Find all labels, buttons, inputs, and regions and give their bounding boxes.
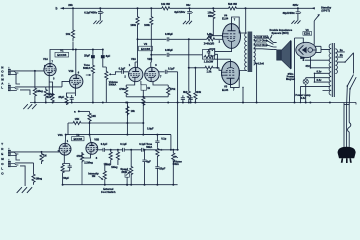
transformer T2 core bbox=[332, 43, 334, 97]
tube V5 EL84 (flipped) bbox=[222, 61, 240, 84]
resistor divider A bbox=[187, 88, 190, 103]
svg-text:ECC83: ECC83 bbox=[57, 53, 66, 57]
pot Tone 500kA bbox=[92, 58, 94, 60]
svg-text:8k2: 8k2 bbox=[183, 90, 188, 94]
wire J4 wiring bbox=[15, 163, 33, 186]
phase shift network wire bbox=[98, 149, 179, 151]
jack J2 normal input bbox=[8, 85, 11, 91]
pot Volume 50kA bbox=[172, 149, 174, 151]
svg-text:50µF: 50µF bbox=[63, 176, 69, 180]
svg-text:20k: 20k bbox=[68, 3, 73, 7]
capacitor bus bypass B bbox=[190, 95, 192, 102]
svg-text:1.2kΩW: 1.2kΩW bbox=[204, 60, 214, 64]
resistor grid stopper V4 bbox=[206, 38, 215, 41]
svg-text:25µF: 25µF bbox=[58, 95, 64, 99]
wire tone corner bbox=[170, 135, 172, 150]
junction bbox=[150, 54, 152, 56]
wire V4 plate to OT bbox=[232, 17, 247, 33]
svg-text:3.9µF: 3.9µF bbox=[147, 127, 154, 131]
junction bbox=[99, 7, 101, 9]
resistor 1k common bias box bbox=[140, 81, 142, 85]
wire V5 cathode top bbox=[230, 59, 232, 61]
resistor 470k V2A cathode leg bbox=[126, 82, 135, 85]
svg-text:1.3 Ohm: 1.3 Ohm bbox=[257, 39, 268, 43]
wire secondary taps to speaker bbox=[254, 37, 268, 63]
svg-text:V1B: V1B bbox=[69, 69, 74, 73]
resistor 10k tremolo supply bbox=[88, 111, 91, 123]
svg-text:8µF: 8µF bbox=[106, 54, 111, 58]
jack J3 tremolo input bbox=[8, 150, 11, 156]
junction set preamp bbox=[34, 102, 36, 104]
wire switch to cord bbox=[344, 104, 350, 106]
wire V1B plate bbox=[75, 50, 77, 75]
svg-text:500kA: 500kA bbox=[109, 83, 117, 87]
capacitor coupling to V2A grid bbox=[122, 70, 124, 74]
junction trem bus bbox=[104, 184, 106, 186]
wire tremolo lower rail bbox=[66, 134, 171, 136]
wire V3A cathode RC bbox=[63, 155, 70, 164]
junction bbox=[245, 7, 247, 9]
svg-text:V2B: V2B bbox=[147, 57, 152, 61]
svg-text:L: L bbox=[1, 86, 3, 90]
resistor 1k 5W (screen stopper V4) bbox=[212, 8, 215, 21]
wire ground bus tremolo bbox=[63, 184, 178, 186]
svg-text:47k: 47k bbox=[76, 154, 81, 158]
svg-text:250k: 250k bbox=[121, 170, 127, 174]
fuse link diagonal bbox=[345, 53, 354, 62]
svg-text:1M: 1M bbox=[92, 174, 96, 178]
capacitor 25uF below tone bbox=[156, 158, 158, 167]
svg-text:100k: 100k bbox=[130, 23, 136, 27]
wire V3B plate riser bbox=[90, 123, 92, 143]
wire mains cord bbox=[344, 103, 347, 148]
foot switch connector box bbox=[125, 171, 129, 177]
svg-text:32µF/450v: 32µF/450v bbox=[283, 11, 296, 15]
label taps bbox=[257, 35, 268, 38]
capacitor 0.05uF upper coupling bbox=[167, 37, 169, 41]
svg-text:325v: 325v bbox=[293, 3, 299, 7]
resistor 1Meg grid J1 bbox=[34, 71, 36, 86]
transformer T1 secondary bbox=[254, 36, 256, 65]
svg-text:Spacers (BF5): Spacers (BF5) bbox=[272, 31, 289, 35]
svg-text:0.05µF: 0.05µF bbox=[165, 48, 173, 52]
ground at bus left bbox=[23, 104, 36, 109]
svg-text:Σ=8kΩ/B: Σ=8kΩ/B bbox=[204, 41, 215, 45]
svg-text:L: L bbox=[1, 167, 3, 171]
wire supply spur bbox=[73, 49, 103, 51]
wire V1B cathode caps bbox=[67, 88, 76, 96]
svg-text:EL84: EL84 bbox=[222, 88, 229, 92]
capacitor 25uF decoupling bbox=[92, 49, 94, 51]
resistor on riser bbox=[126, 105, 129, 116]
wire phase divider right bbox=[194, 68, 196, 88]
capacitor PS2 bbox=[123, 148, 125, 152]
resistor 1Meg grid J2 bbox=[45, 87, 47, 88]
svg-text:470k: 470k bbox=[119, 87, 125, 91]
svg-text:470k: 470k bbox=[170, 87, 176, 91]
wire V6 top-left pin to HT cap bbox=[295, 38, 304, 103]
capacitor 32uF/450v reservoir bbox=[297, 8, 299, 11]
resistor 100k V2A plate load bbox=[136, 8, 139, 33]
transformer T1 core bbox=[248, 32, 253, 73]
wire J1 to V1A grid bbox=[11, 71, 44, 84]
junction bbox=[188, 67, 190, 69]
capacitor PS1 bbox=[103, 148, 105, 152]
svg-text:6.3v: 6.3v bbox=[317, 69, 323, 73]
wire secondary return to bus bbox=[256, 63, 258, 103]
capacitor 8uF/150v bbox=[189, 8, 191, 11]
junction bbox=[137, 38, 139, 40]
svg-text:0.96 Ohm: 0.96 Ohm bbox=[257, 35, 269, 39]
resistor 470k V2B cathode leg bbox=[153, 82, 168, 85]
svg-text:1M: 1M bbox=[43, 153, 47, 157]
wire B+ rail bbox=[61, 7, 315, 9]
svg-text:25µF: 25µF bbox=[84, 54, 90, 58]
svg-text:10k 3W: 10k 3W bbox=[161, 2, 170, 6]
resistor 100k V2B plate load bbox=[150, 8, 153, 33]
svg-text:0.1µF: 0.1µF bbox=[101, 142, 108, 146]
junction bbox=[34, 70, 36, 72]
junction bbox=[188, 38, 190, 40]
svg-text:2b: 2b bbox=[340, 53, 343, 57]
svg-text:3.2 Ohm: 3.2 Ohm bbox=[257, 43, 268, 47]
wire V5 down to bus bbox=[242, 87, 244, 102]
resistor divider B bbox=[194, 88, 197, 103]
svg-text:1.5k: 1.5k bbox=[207, 70, 213, 74]
wire V6 bottom pins bbox=[303, 57, 310, 68]
svg-text:T: T bbox=[1, 142, 3, 146]
ground bbox=[93, 21, 102, 24]
cathode bias box V4/V5 bbox=[210, 48, 215, 55]
junction mains bbox=[309, 102, 311, 104]
svg-text:350: 350 bbox=[300, 56, 305, 60]
svg-text:V3: V3 bbox=[76, 133, 80, 137]
capacitor 25uF V1B cathode bbox=[65, 96, 68, 105]
svg-text:10K: 10K bbox=[91, 114, 96, 118]
wire V4 cathode bbox=[215, 48, 232, 51]
svg-text:V1: V1 bbox=[60, 48, 64, 52]
svg-text:V2: V2 bbox=[144, 42, 148, 46]
svg-text:6.3v: 6.3v bbox=[301, 96, 307, 100]
jack J1 normal input bbox=[8, 69, 11, 75]
svg-text:(SPST): (SPST) bbox=[321, 8, 330, 12]
pot Speed 250k bbox=[130, 149, 132, 151]
wire V3B cathode bbox=[82, 152, 91, 158]
ground bbox=[183, 21, 192, 24]
resistor 1Meg PS1 bbox=[110, 149, 112, 151]
wire V1A plate to supply node bbox=[50, 50, 73, 64]
wire J3 to V3A grid bbox=[11, 152, 60, 160]
wire V5 grid line bbox=[189, 67, 205, 69]
capacitor bus bypass A bbox=[182, 95, 184, 102]
wire V3A plate riser bbox=[64, 135, 67, 144]
jack J4 tremolo input bbox=[8, 161, 11, 167]
svg-text:0.05µF: 0.05µF bbox=[165, 32, 173, 36]
svg-text:V3B: V3B bbox=[94, 137, 99, 141]
wire cathode bus bbox=[126, 90, 168, 97]
transformer T2 secondary (right) bbox=[335, 49, 337, 74]
svg-text:0.1µF: 0.1µF bbox=[119, 66, 126, 70]
svg-text:0.1µ: 0.1µ bbox=[161, 137, 167, 141]
junction bbox=[189, 7, 191, 9]
plug mains bbox=[338, 147, 356, 158]
wire volume wiper to V2A grid cap bbox=[115, 72, 119, 75]
svg-text:10k: 10k bbox=[66, 32, 71, 36]
svg-text:50kA: 50kA bbox=[173, 162, 179, 166]
capacitor 0.1uF tone bbox=[156, 135, 158, 141]
resistor 1Meg PS2 bbox=[117, 149, 119, 151]
ground bbox=[291, 20, 300, 23]
junction bbox=[212, 7, 214, 9]
svg-text:0.1µF: 0.1µF bbox=[120, 142, 127, 146]
lamp pilot bbox=[305, 78, 307, 79]
svg-text:8µF/150v: 8µF/150v bbox=[174, 10, 185, 14]
resistor 1Meg J4 bbox=[33, 163, 35, 174]
svg-text:15K: 15K bbox=[75, 117, 80, 121]
wire primary taps right bbox=[337, 52, 345, 62]
capacitor V2B output to tremolo volume bbox=[159, 71, 165, 73]
svg-text:10k: 10k bbox=[197, 90, 202, 94]
wire B+ to OT centre tap bbox=[245, 8, 247, 33]
svg-text:500kA: 500kA bbox=[83, 66, 91, 70]
transformer T2 power primary (left) bbox=[329, 44, 331, 95]
svg-text:6.2µF/450v: 6.2µF/450v bbox=[84, 11, 98, 15]
transformer T1 output primary bbox=[245, 33, 247, 71]
wire V6 right stubs bbox=[315, 46, 330, 52]
svg-text:100k: 100k bbox=[144, 23, 150, 27]
svg-text:1Meg: 1Meg bbox=[36, 177, 43, 181]
svg-text:8µF: 8µF bbox=[146, 160, 151, 164]
ground tremolo jacks bbox=[17, 187, 32, 193]
wire V2A plate riser bbox=[135, 33, 137, 67]
capacitor 8uF trem bus bbox=[144, 149, 146, 151]
svg-text:1k5: 1k5 bbox=[47, 95, 52, 99]
wire V1A cathode bbox=[49, 76, 52, 96]
svg-text:E: E bbox=[1, 152, 3, 156]
svg-text:ECC83: ECC83 bbox=[141, 47, 150, 51]
svg-text:6.3v: 6.3v bbox=[317, 78, 323, 82]
junction bbox=[297, 7, 299, 9]
svg-text:Foot Switch: Foot Switch bbox=[101, 190, 116, 194]
junction bbox=[72, 7, 74, 9]
svg-text:EL84: EL84 bbox=[222, 17, 229, 21]
capacitor PS3 bbox=[142, 148, 144, 152]
svg-text:1Meg: 1Meg bbox=[111, 165, 118, 169]
svg-text:1.5k: 1.5k bbox=[208, 33, 214, 37]
wire J2 links bbox=[15, 87, 46, 95]
capacitor 6.2uF/450v bbox=[99, 8, 101, 11]
junction bbox=[72, 49, 74, 51]
wire to tremolo network bbox=[126, 103, 128, 135]
pot Volume 500kA bbox=[103, 58, 107, 70]
resistor 1M J3 bbox=[41, 151, 43, 154]
wire V4 grid bbox=[222, 38, 224, 40]
wire inject to tone bbox=[143, 134, 171, 136]
svg-text:ECC83: ECC83 bbox=[73, 137, 82, 141]
svg-text:0.1µF: 0.1µF bbox=[139, 142, 146, 146]
standby switch SPST bbox=[312, 7, 315, 9]
wire main ground bus bbox=[30, 102, 356, 104]
svg-text:V3A: V3A bbox=[58, 133, 63, 137]
svg-text:0.1µF: 0.1µF bbox=[168, 66, 175, 70]
wire V2A plate coupling upper bbox=[138, 38, 167, 40]
wire V1B grid mix bbox=[46, 81, 70, 87]
svg-text:EZ81: EZ81 bbox=[304, 32, 311, 36]
resistor 1k5 V1A cathode bbox=[51, 93, 54, 103]
wire tremolo plate rail bbox=[68, 122, 143, 124]
svg-text:2.2Meg: 2.2Meg bbox=[84, 161, 93, 165]
op V3A triode bbox=[59, 143, 71, 155]
svg-text:V2A: V2A bbox=[131, 57, 136, 61]
wire screen feed to V4 bbox=[213, 21, 223, 36]
capacitor 8uF decoupling bbox=[102, 49, 104, 51]
svg-text:5k6 3W: 5k6 3W bbox=[228, 2, 237, 6]
wire phase divider left bbox=[188, 39, 190, 88]
transformer T2 HT taps bbox=[305, 60, 330, 68]
svg-text:b: b bbox=[56, 7, 58, 11]
node b (HT feed arrow) bbox=[61, 7, 65, 10]
svg-text:Magnet: Magnet bbox=[286, 77, 295, 81]
resistor 10k (screen feed) bbox=[72, 8, 74, 26]
svg-text:310: 310 bbox=[306, 64, 311, 68]
wire inject vertical bbox=[142, 103, 144, 135]
svg-text:5W: 5W bbox=[208, 14, 212, 18]
capacitor 0.05uF lower coupling bbox=[151, 54, 166, 56]
svg-text:30v: 30v bbox=[186, 3, 191, 7]
pot Tone 50kA tremolo bbox=[156, 147, 159, 157]
pot Intensity 1M bbox=[111, 162, 118, 165]
resistor 10k 3W (B+ dropper) bbox=[161, 7, 172, 10]
svg-text:V1A: V1A bbox=[43, 57, 48, 61]
resistor tremolo inject bbox=[142, 97, 145, 106]
resistor 15K bbox=[72, 121, 81, 124]
svg-text:50kA: 50kA bbox=[146, 145, 152, 149]
cord squiggle bbox=[348, 123, 351, 148]
speaker LS1 bbox=[277, 50, 282, 60]
wire heater return bbox=[300, 86, 302, 102]
resistor grid stopper V5 bbox=[205, 66, 214, 69]
wire V2B plate riser bbox=[150, 33, 153, 67]
wire down to tremolo volume bbox=[177, 72, 179, 150]
wire heater taps left bbox=[301, 73, 330, 90]
switch mains on/off bbox=[347, 75, 356, 89]
svg-text:25µF: 25µF bbox=[159, 166, 165, 170]
wire V5 plate to OT bbox=[231, 71, 247, 88]
svg-text:10k: 10k bbox=[131, 109, 136, 113]
svg-text:1Meg: 1Meg bbox=[36, 89, 43, 93]
resistor 5k6 3W (B+ dropper) bbox=[227, 7, 239, 10]
